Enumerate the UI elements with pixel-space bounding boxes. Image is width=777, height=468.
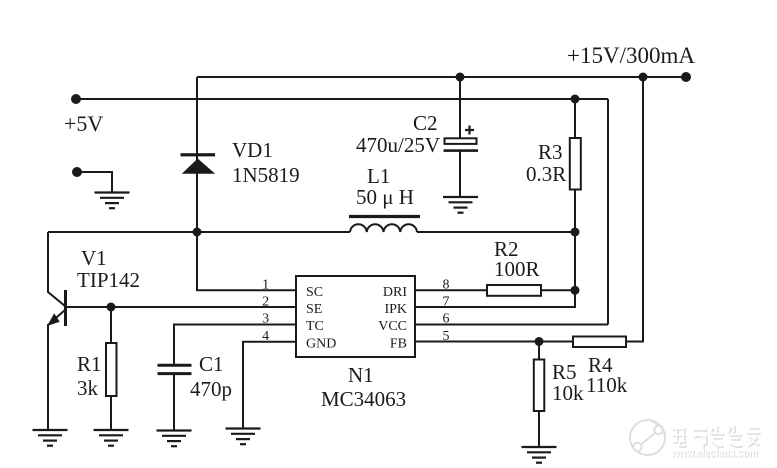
ground symbol R5 [522, 447, 557, 463]
wire R1 branch [110, 307, 112, 429]
wire collector V1 [48, 232, 65, 306]
wire VCC riser [607, 99, 609, 325]
svg-text:50 μ H: 50 μ H [356, 185, 414, 209]
svg-text:6: 6 [443, 312, 450, 327]
resistor R4 [573, 337, 626, 348]
ground symbol V1 emitter [33, 430, 68, 446]
svg-text:0.3R: 0.3R [526, 162, 566, 186]
svg-text:470u/25V: 470u/25V [356, 133, 440, 157]
wire R5 branch [538, 342, 540, 447]
wire VD1 branch [196, 77, 198, 232]
junction node dots [456, 73, 465, 82]
svg-text:5: 5 [443, 329, 450, 344]
svg-text:1N5819: 1N5819 [232, 163, 300, 187]
wire GND pin4 [243, 342, 296, 428]
wire C2 branch [459, 77, 461, 196]
transistor V1 emitter arrow [47, 310, 65, 326]
svg-text:TIP142: TIP142 [77, 268, 140, 292]
wire ground terminal [77, 172, 112, 192]
svg-text:4: 4 [262, 329, 269, 344]
svg-text:3: 3 [262, 312, 269, 327]
svg-text:VCC: VCC [378, 319, 407, 334]
inductor L1 [349, 217, 420, 233]
ground symbol IC pin4 [226, 429, 261, 445]
svg-text:C2: C2 [413, 111, 438, 135]
svg-text:SE: SE [306, 302, 322, 317]
ground symbol C2 [443, 197, 478, 213]
capacitor C1 [158, 365, 192, 373]
svg-text:+15V/300mA: +15V/300mA [567, 43, 695, 68]
svg-text:MC34063: MC34063 [321, 387, 406, 411]
terminal dot +5V [71, 94, 81, 104]
svg-text:2: 2 [262, 295, 269, 310]
wire C1 to ground [173, 375, 175, 430]
ground symbol C1 [157, 431, 192, 447]
wire FB pin5 R4 [415, 77, 643, 342]
svg-text:R3: R3 [538, 140, 563, 164]
svg-text:110k: 110k [586, 373, 628, 397]
ground symbol (input terminal) [95, 193, 130, 209]
watermark chinese characters (电子发烧友) [674, 427, 761, 450]
wire base SE pin2 [67, 306, 296, 308]
svg-text:IPK: IPK [384, 302, 407, 317]
svg-text:470p: 470p [190, 377, 232, 401]
svg-text:+5V: +5V [64, 111, 103, 136]
svg-text:C1: C1 [199, 352, 224, 376]
svg-text:7: 7 [443, 295, 450, 310]
resistor R1 [106, 343, 117, 396]
svg-text:3k: 3k [77, 376, 99, 400]
wire VCC pin6 [415, 324, 608, 326]
ground symbol R1 [94, 430, 129, 446]
svg-text:1: 1 [262, 278, 269, 293]
svg-text:8: 8 [443, 278, 450, 293]
wire L1 rail left [48, 231, 350, 233]
svg-text:SC: SC [306, 285, 323, 300]
resistor R3 [570, 138, 581, 190]
IC U N1 MC34063 box [296, 276, 415, 357]
terminal dot ground input [72, 167, 82, 177]
svg-text:R1: R1 [77, 352, 102, 376]
wire TC pin3 [174, 325, 296, 365]
svg-text:VD1: VD1 [232, 138, 273, 162]
svg-text:FB: FB [390, 337, 407, 352]
wire R3 branch and IPK pin7 [415, 99, 575, 307]
svg-text:TC: TC [306, 319, 324, 334]
wire top output rail (+15V) [197, 76, 686, 78]
svg-text:DRI: DRI [383, 285, 407, 300]
watermark logo circle [630, 420, 665, 455]
transistor Q V1 base bar [64, 290, 67, 326]
wire L1 rail right [417, 231, 575, 233]
capacitor C2 [444, 126, 479, 152]
wire emitter V1 [47, 324, 49, 429]
diode VD1 [181, 153, 216, 174]
resistor R2 [487, 285, 541, 296]
svg-text:100R: 100R [494, 257, 540, 281]
svg-text:10k: 10k [552, 381, 584, 405]
terminal dot +15V output [681, 72, 691, 82]
wire SC pin1 [197, 232, 296, 290]
svg-text:www.elecfans.com: www.elecfans.com [671, 446, 758, 460]
svg-text:V1: V1 [81, 246, 107, 270]
svg-text:N1: N1 [348, 363, 374, 387]
wire +5V rail [76, 98, 608, 100]
svg-text:GND: GND [306, 337, 336, 352]
wire DRI pin8 R2 [415, 289, 575, 291]
resistor R5 [534, 360, 545, 412]
